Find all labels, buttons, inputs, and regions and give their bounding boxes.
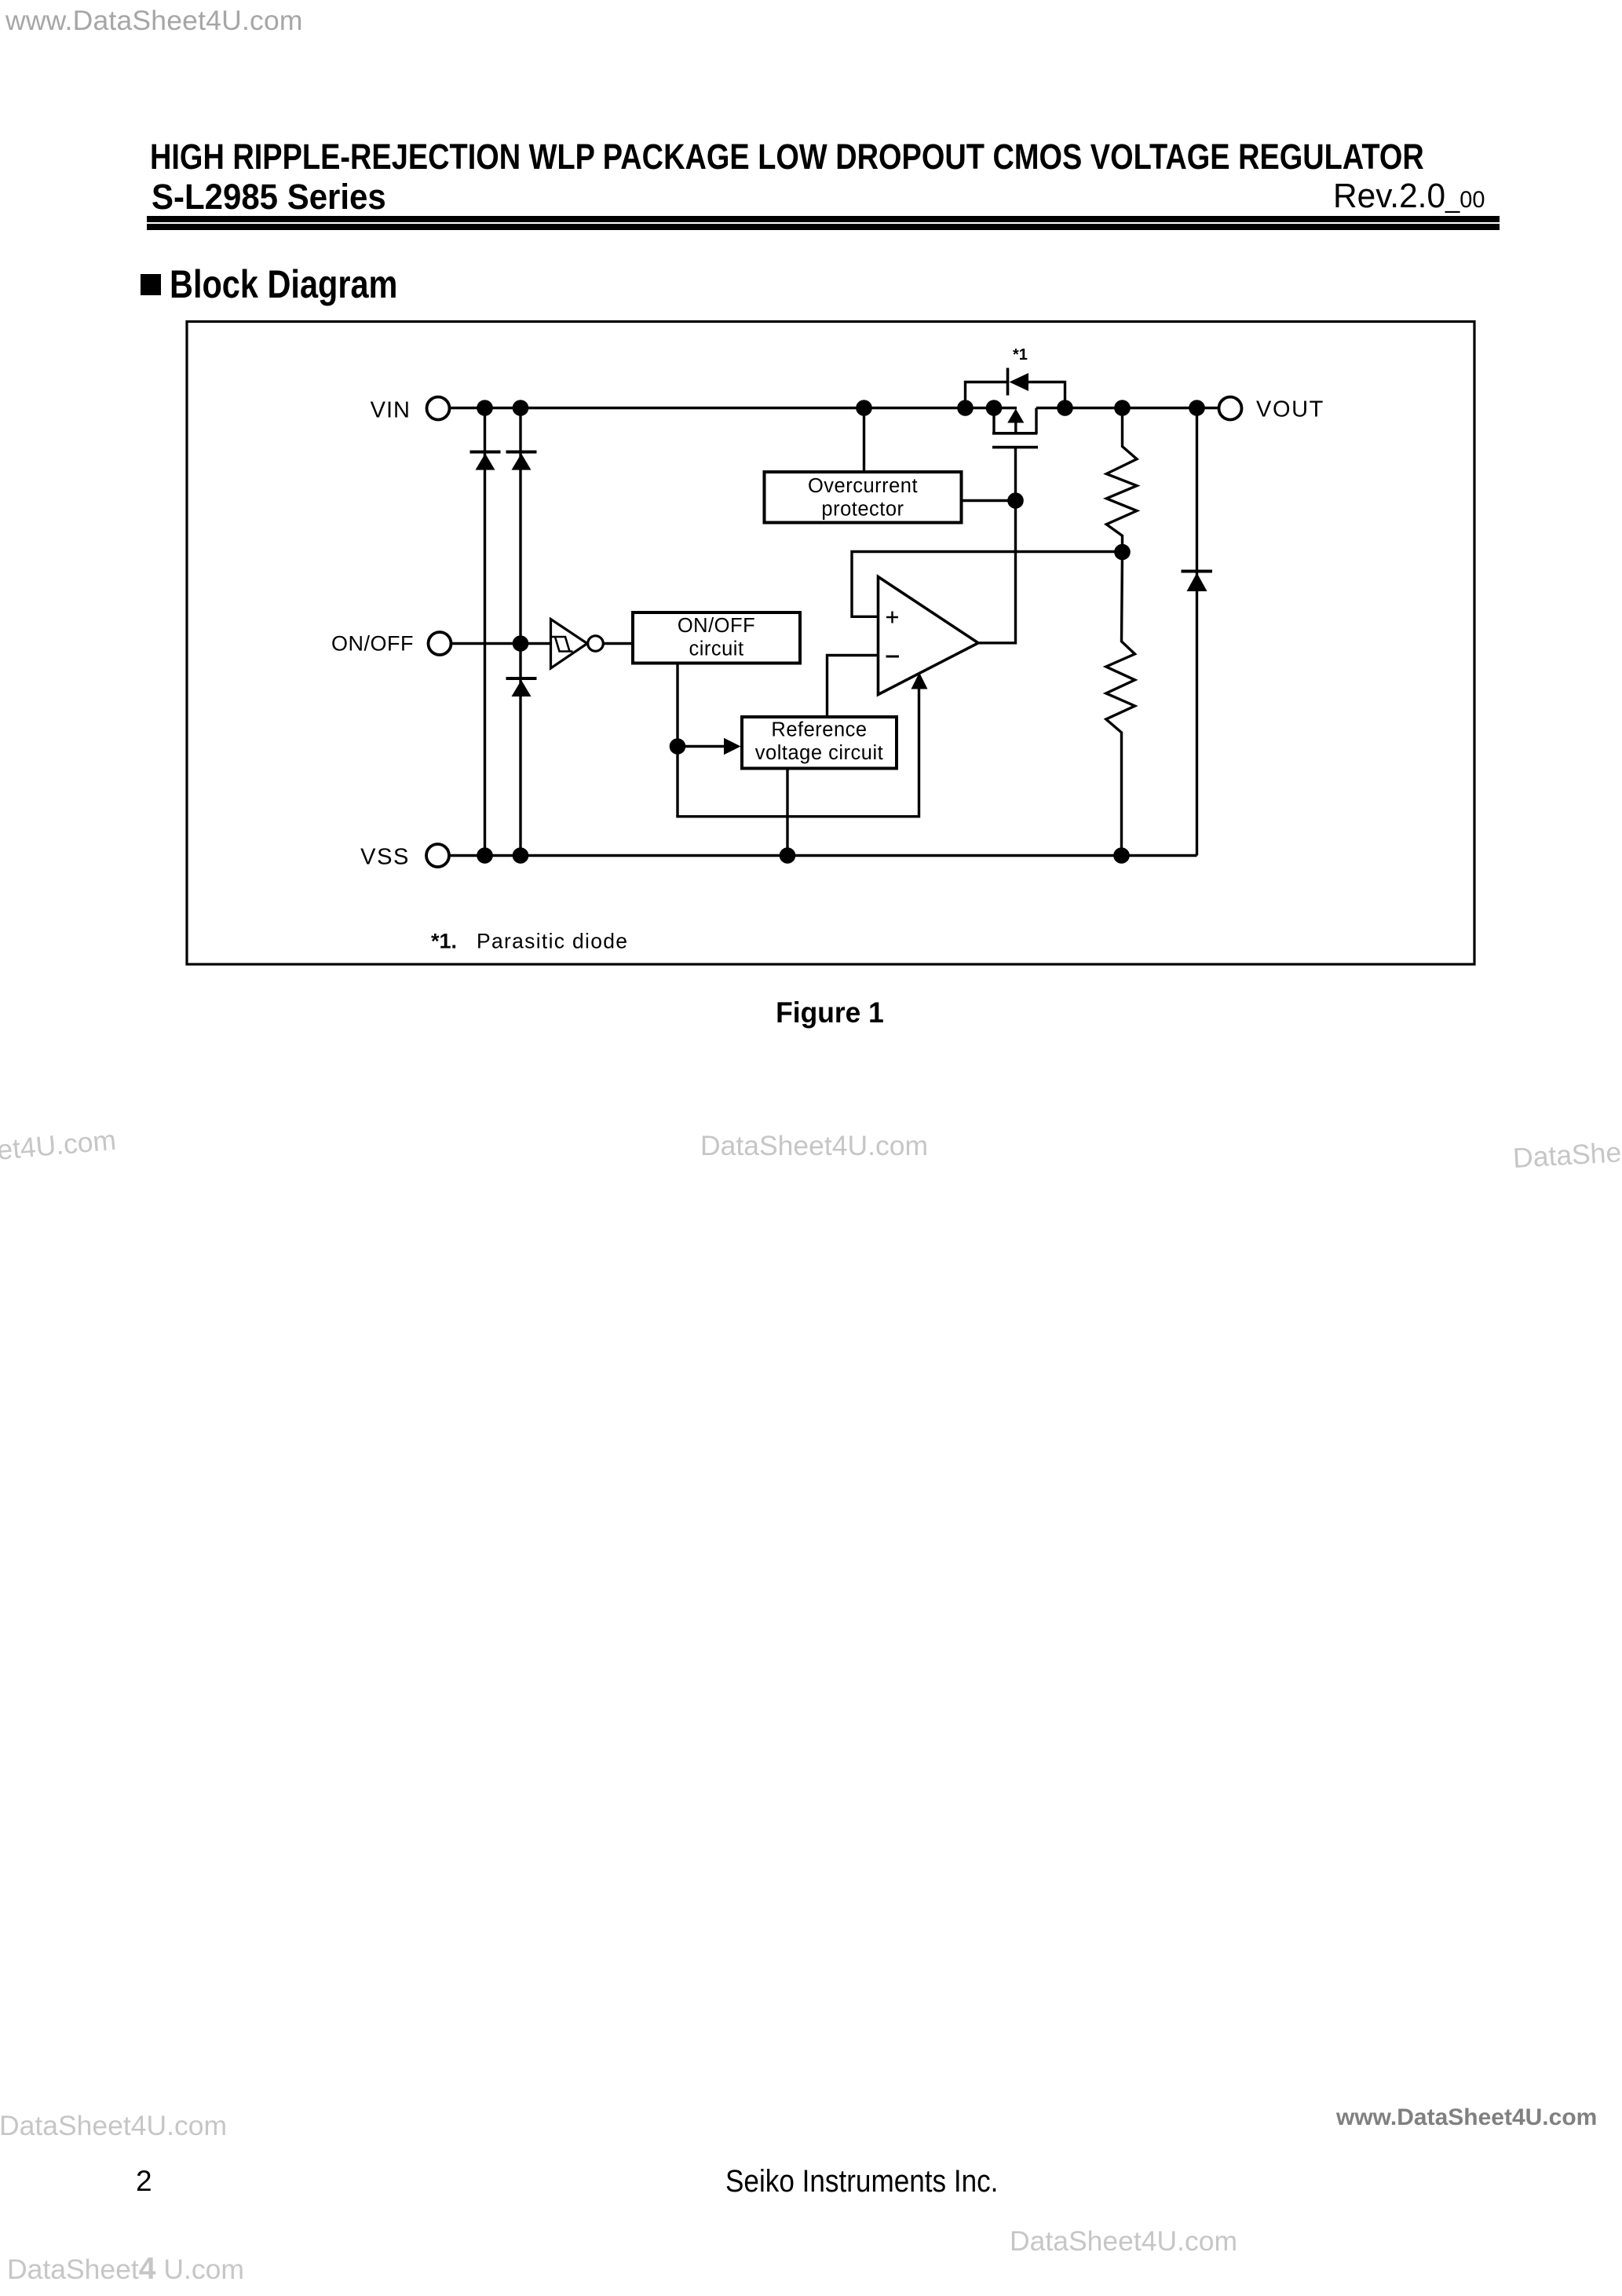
svg-text:Reference: Reference	[771, 719, 867, 741]
wire Reference box bottom to VSS	[786, 769, 788, 856]
ESD diode D1 (anode up toward VIN)	[470, 452, 501, 470]
junction MOSFET source	[986, 400, 1003, 416]
wire inverter output to ON/OFF circuit box	[604, 642, 633, 645]
wire op-amp noninverting input and feedback	[852, 552, 1123, 617]
terminal VIN	[371, 397, 450, 423]
wire VIN rail (right segment from MOSFET drain to VOUT)	[1036, 407, 1219, 409]
wire across to op-amp bias riser	[676, 815, 919, 817]
wire Overcurrent protector to VIN rail	[863, 408, 865, 473]
junction VOUT-R1	[1114, 400, 1131, 416]
junction VIN-parasitic diode left	[957, 400, 974, 416]
wire Overcurrent protector to gate node	[961, 499, 1016, 502]
note *1 Parasitic diode	[431, 930, 628, 953]
svg-text:VOUT: VOUT	[1256, 397, 1324, 422]
svg-text:VIN: VIN	[371, 398, 411, 423]
op-amp U1	[879, 577, 979, 695]
junction reference node	[670, 738, 686, 755]
svg-text:ON/OFF: ON/OFF	[678, 615, 755, 637]
junction VSS-ESD1	[477, 847, 493, 864]
wire and arrow into Reference voltage circuit	[678, 738, 741, 755]
wire VSS rail	[449, 854, 1197, 857]
junction gate node	[1007, 492, 1024, 509]
terminal VSS	[360, 844, 449, 870]
svg-text:voltage circuit: voltage circuit	[755, 742, 883, 764]
box Reference voltage circuit	[742, 717, 897, 769]
svg-text:ON/OFF: ON/OFF	[331, 632, 414, 656]
parasitic diode *1 (bypass loop)	[966, 346, 1065, 408]
junction feedback tap	[1114, 544, 1131, 561]
resistor R1 (upper divider)	[1106, 408, 1137, 553]
arrow into op-amp bottom edge	[911, 673, 928, 689]
watermark mid-center	[700, 1130, 928, 1162]
junction VSS-ESD2	[513, 847, 529, 864]
junction VIN-overcurrent	[856, 400, 872, 416]
junction VSS-R2	[1113, 847, 1130, 864]
wire Reference box top to op-amp inverting input	[827, 656, 880, 718]
svg-text:*1.: *1.	[431, 930, 457, 953]
wire ON/OFF circuit down to reference node	[676, 665, 678, 817]
box ON/OFF circuit	[633, 612, 800, 664]
svg-text:*1: *1	[1013, 346, 1028, 364]
wire ON/OFF input	[451, 642, 550, 645]
watermark top-left	[5, 5, 303, 37]
wire VIN rail (left segment)	[450, 407, 1017, 409]
junction MOSFET drain / parasitic diode right	[1057, 400, 1073, 416]
clamp diode D4 (anode at VSS side)	[1182, 572, 1213, 592]
figure caption	[776, 996, 884, 1029]
svg-text:circuit: circuit	[689, 638, 743, 660]
junction VIN-ESD1	[477, 400, 493, 416]
watermark mid-left (clipped)	[0, 1124, 118, 1176]
wire ESD column 2 (VIN to VSS)	[519, 408, 521, 856]
box Overcurrent protector	[765, 472, 962, 523]
diagram border frame	[187, 322, 1474, 965]
wire op-amp output to gate vertical	[977, 642, 1016, 644]
wire VOUT clamp diode branch	[1196, 408, 1198, 856]
footer	[1336, 2104, 1597, 2131]
double rule	[147, 216, 1500, 222]
ESD diode D3 (below ON/OFF junction)	[506, 678, 537, 696]
svg-text:protector: protector	[821, 499, 904, 521]
junction VSS-reference	[780, 847, 796, 864]
ESD diode D2	[506, 452, 537, 470]
MOSFET pass transistor Q1	[992, 408, 1038, 448]
terminal ON/OFF	[331, 632, 451, 656]
svg-text:VSS: VSS	[360, 845, 410, 870]
title line 1	[150, 137, 1424, 177]
terminal VOUT	[1219, 397, 1324, 422]
junction ON/OFF-ESD2	[513, 635, 529, 652]
revision	[1333, 177, 1485, 216]
resistor R2 (lower divider)	[1106, 552, 1135, 856]
wire riser to op-amp bias arrow	[918, 688, 920, 818]
Schmitt inverter U2	[551, 620, 604, 669]
wire ESD column 1 (VIN to VSS)	[484, 408, 486, 856]
watermark mid-right (clipped, rotated)	[1512, 1130, 1622, 1175]
junction VIN-ESD2	[513, 400, 529, 416]
title line 2	[152, 177, 386, 218]
junction VOUT-clamp diode	[1189, 400, 1205, 416]
wire gate vertical	[1014, 448, 1017, 645]
svg-text:Parasitic diode: Parasitic diode	[477, 930, 628, 953]
section header	[141, 274, 161, 295]
svg-text:Overcurrent: Overcurrent	[808, 475, 918, 497]
